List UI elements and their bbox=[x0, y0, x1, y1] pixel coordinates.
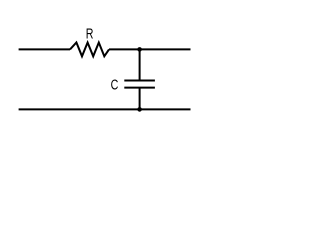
wire capacitor bottom lead bbox=[139, 88, 141, 110]
wire bottom rail bbox=[19, 108, 191, 110]
svg-text:R: R bbox=[86, 25, 94, 42]
wire capacitor top lead bbox=[139, 49, 141, 80]
resistor R bbox=[70, 43, 109, 57]
node junction top bbox=[137, 47, 142, 52]
svg-text:C: C bbox=[111, 76, 119, 93]
wire top rail right segment bbox=[109, 48, 191, 50]
node junction bottom bbox=[137, 107, 142, 112]
capacitor C bbox=[124, 81, 155, 88]
wire top rail left segment bbox=[19, 48, 70, 50]
